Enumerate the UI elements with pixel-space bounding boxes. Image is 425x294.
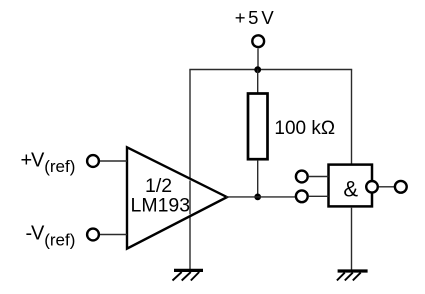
wire: rail to gate top: [351, 70, 353, 165]
label -V(ref): [26, 223, 76, 250]
svg-text:+5V: +5V: [235, 7, 275, 28]
wire: +5V terminal to top rail: [257, 48, 259, 69]
svg-text:&: &: [343, 176, 358, 201]
ground (comparator): [173, 270, 204, 280]
wire: gate input B to gate body: [309, 195, 329, 197]
wire: +V(ref) to op-amp input: [100, 160, 127, 162]
terminal output: [395, 181, 407, 193]
wire: top rail: [189, 69, 352, 71]
svg-text:LM193: LM193: [130, 194, 190, 216]
terminal -V(ref): [87, 229, 99, 241]
label &: [343, 176, 358, 201]
net label +5V: [235, 7, 275, 28]
svg-text:100 kΩ: 100 kΩ: [274, 118, 335, 139]
label 1/2: [145, 175, 172, 197]
wire: rail to resistor top: [257, 70, 259, 95]
wire: gate bottom to ground: [351, 208, 353, 271]
wire: gate output to output terminal: [379, 186, 394, 188]
wire: -V(ref) to op-amp input: [100, 234, 127, 236]
wire: left supply drop (rail to ground through comparator): [189, 70, 191, 271]
svg-text:-V: -V: [26, 223, 46, 245]
terminal +5V: [252, 35, 264, 47]
label +V(ref): [21, 149, 76, 176]
svg-text:(ref): (ref): [44, 157, 75, 176]
resistor R1 body: [248, 94, 268, 160]
wire: gate input A to gate body: [309, 176, 329, 178]
terminal +V(ref): [87, 155, 99, 167]
junction: comparator output node: [254, 194, 261, 201]
wire: comparator output to gate input: [226, 196, 295, 198]
label 100 kOhm: [274, 118, 335, 139]
gate U2 body: [329, 165, 373, 207]
junction: rail / resistor node: [254, 66, 261, 73]
label LM193: [130, 194, 190, 216]
terminal gate input B: [296, 190, 308, 202]
op-amp U1 triangle: [127, 147, 227, 248]
terminal gate input A (unconnected): [296, 171, 308, 183]
wire: resistor bottom to output node: [257, 161, 259, 197]
ground (gate): [337, 271, 368, 280]
svg-text:+V: +V: [21, 149, 46, 171]
wire: left supply drop visible inside op-amp: [189, 181, 191, 215]
svg-text:(ref): (ref): [44, 230, 75, 249]
inversion bubble on gate output: [366, 181, 378, 193]
